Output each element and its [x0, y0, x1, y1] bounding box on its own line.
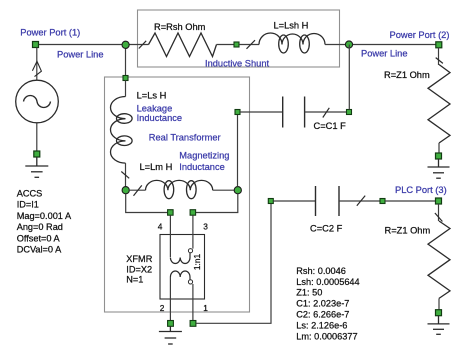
XFMR pin 1 node: [190, 321, 196, 327]
svg-text:Magnetizing: Magnetizing: [179, 151, 229, 161]
resistor R=Z1 (top right): [428, 48, 450, 153]
svg-text:Inductance: Inductance: [179, 162, 225, 172]
node between Rsh and Lsh: [234, 42, 239, 47]
svg-text:Power Line: Power Line: [361, 48, 408, 58]
svg-text:Ls: 2.126e-6: Ls: 2.126e-6: [296, 321, 347, 331]
node J1 junction: [122, 41, 129, 48]
svg-text:Inductance: Inductance: [137, 113, 183, 123]
svg-text:PLC Port (3): PLC Port (3): [395, 185, 447, 195]
wire port1 down to source: [36, 48, 38, 81]
svg-text:C=C1 F: C=C1 F: [314, 121, 347, 131]
svg-text:Lm: 0.0006377: Lm: 0.0006377: [296, 332, 357, 342]
node J3 junction: [122, 187, 129, 194]
svg-text:Mag=0.001 A: Mag=0.001 A: [17, 211, 72, 221]
transformer box top terminal node: [123, 76, 128, 81]
svg-text:C2: 6.266e-7: C2: 6.266e-7: [296, 310, 349, 320]
svg-text:R=Z1 Ohm: R=Z1 Ohm: [384, 70, 430, 80]
svg-text:Offset=0 A: Offset=0 A: [17, 233, 61, 243]
inductor L=Lsh (in shunt box): [239, 33, 349, 53]
ground (top right): [428, 159, 450, 178]
svg-text:Power Line: Power Line: [57, 50, 104, 60]
svg-text:Z1: 50: Z1: 50: [296, 288, 322, 298]
real transformer subcircuit box: [105, 77, 250, 312]
current source ACCS I1 arrow: [32, 61, 41, 76]
wire J4 up to C1 terminal: [237, 112, 239, 187]
svg-text:Real Transformer: Real Transformer: [149, 133, 221, 143]
label Leakage Inductance: [137, 104, 183, 124]
label XFMR ID=X2 N=1: [126, 254, 152, 284]
svg-text:Power Port (1): Power Port (1): [20, 28, 80, 38]
label equation values: [296, 266, 359, 342]
svg-text:ID=X2: ID=X2: [126, 264, 152, 274]
wire C2 to port3: [385, 200, 435, 202]
resistor R=Z1 (bottom right): [428, 204, 450, 310]
svg-text:L=Lm H: L=Lm H: [140, 162, 173, 172]
svg-text:XFMR: XFMR: [126, 254, 152, 264]
svg-text:L=Lsh H: L=Lsh H: [274, 21, 309, 31]
port P3 terminal: [436, 198, 442, 204]
svg-text:L=Ls H: L=Ls H: [137, 91, 167, 101]
C2 left terminal node: [268, 199, 273, 204]
wire J2 to port2: [349, 44, 436, 46]
wire C1 up to J2: [348, 45, 350, 110]
port P2 terminal: [436, 42, 442, 48]
svg-text:DCVal=0 A: DCVal=0 A: [17, 245, 62, 255]
svg-text:4: 4: [158, 222, 163, 232]
ground (below source): [25, 157, 48, 177]
svg-text:3: 3: [203, 222, 208, 232]
wire J1 down to transformer box terminal: [125, 45, 127, 79]
wire port1 to node J1: [36, 44, 126, 46]
R Z1 bottom ground terminal node: [436, 310, 442, 316]
label ACCS parameters: [17, 189, 72, 255]
ground (below XFMR pin 2): [159, 326, 182, 344]
svg-text:1:n1: 1:n1: [192, 254, 202, 271]
svg-text:C1: 2.023e-7: C1: 2.023e-7: [296, 299, 349, 309]
capacitor C=C2: [273, 186, 380, 216]
svg-text:Leakage: Leakage: [137, 104, 173, 114]
node J4 junction: [234, 187, 241, 194]
wire XFMR pin 1 to C2: [196, 204, 271, 324]
svg-text:R=Rsh Ohm: R=Rsh Ohm: [154, 22, 206, 32]
wire J3 down to XFMR pin 4: [126, 194, 168, 213]
C1 left terminal node: [235, 110, 240, 115]
port P1 terminal: [33, 42, 39, 48]
XFMR pin 3 node: [190, 210, 196, 216]
svg-text:R=Z1 Ohm: R=Z1 Ohm: [385, 226, 431, 236]
XFMR pin 2 node: [168, 321, 174, 327]
svg-text:Power Port (2): Power Port (2): [390, 30, 450, 40]
transformer U X2 body: [160, 215, 205, 320]
current source ACCS I1 circle: [16, 80, 59, 123]
svg-text:Ang=0 Rad: Ang=0 Rad: [17, 222, 63, 232]
inductor L=Lm magnetizing inductance: [129, 180, 238, 198]
resistor R=Rsh (in shunt box): [126, 33, 234, 57]
svg-text:ID=I1: ID=I1: [17, 200, 39, 210]
svg-text:2: 2: [160, 303, 165, 313]
label Magnetizing Inductance: [179, 151, 229, 173]
node J2 junction: [345, 41, 352, 48]
capacitor C=C1: [240, 97, 347, 128]
C1 right terminal node: [347, 110, 352, 115]
svg-text:ACCS: ACCS: [17, 189, 43, 199]
svg-text:Inductive Shunt: Inductive Shunt: [205, 58, 270, 68]
C2 right terminal node: [380, 199, 385, 204]
svg-text:Lsh: 0.0005644: Lsh: 0.0005644: [296, 277, 359, 287]
R Z1 top ground terminal node: [436, 153, 442, 159]
inductive shunt subcircuit box: [138, 10, 340, 67]
ground (bottom right): [428, 316, 450, 334]
svg-text:N=1: N=1: [126, 274, 143, 284]
source ground terminal node: [34, 151, 40, 157]
svg-text:C=C2 F: C=C2 F: [310, 223, 343, 233]
wire source to ground terminal: [36, 123, 38, 151]
inductor L=Ls leakage inductance (vertical): [110, 81, 132, 187]
svg-text:Rsh: 0.0046: Rsh: 0.0046: [296, 266, 346, 276]
wire J4 down to XFMR pin 3: [196, 194, 238, 213]
XFMR pin 4 node: [168, 210, 174, 216]
svg-text:1: 1: [203, 303, 208, 313]
